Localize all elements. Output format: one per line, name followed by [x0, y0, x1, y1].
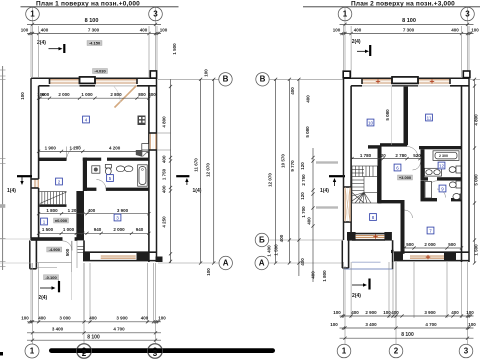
svg-text:500: 500	[448, 242, 456, 247]
svg-text:400: 400	[162, 185, 167, 193]
svg-text:1 800: 1 800	[46, 208, 58, 213]
svg-text:-4.150: -4.150	[89, 41, 101, 46]
svg-text:5 080: 5 080	[305, 126, 310, 138]
svg-text:В: В	[260, 75, 266, 84]
svg-text:500: 500	[406, 242, 414, 247]
svg-text:1 780: 1 780	[360, 153, 372, 158]
svg-text:100: 100	[333, 28, 341, 33]
svg-text:400: 400	[38, 316, 46, 321]
svg-text:7 300: 7 300	[403, 28, 415, 33]
svg-text:100: 100	[206, 268, 211, 276]
svg-text:1 700: 1 700	[301, 206, 306, 218]
svg-text:11 670: 11 670	[194, 158, 199, 172]
svg-text:400: 400	[162, 155, 167, 163]
svg-text:1 500: 1 500	[474, 244, 479, 256]
svg-text:100: 100	[466, 310, 474, 315]
svg-text:+3.000: +3.000	[399, 175, 412, 180]
svg-text:-4.900: -4.900	[49, 247, 61, 252]
svg-text:1(4): 1(4)	[7, 188, 16, 194]
svg-text:1 750: 1 750	[162, 168, 167, 180]
svg-text:1 500: 1 500	[172, 43, 177, 55]
svg-text:1: 1	[343, 9, 348, 18]
svg-text:8 100: 8 100	[402, 18, 416, 24]
svg-text:1 400: 1 400	[267, 245, 272, 257]
svg-text:400: 400	[451, 28, 459, 33]
svg-text:400: 400	[306, 95, 311, 103]
svg-text:500: 500	[65, 248, 70, 256]
svg-text:400: 400	[391, 310, 399, 315]
svg-text:400: 400	[88, 208, 96, 213]
svg-text:100: 100	[333, 310, 341, 315]
svg-text:-0.100: -0.100	[45, 275, 57, 280]
svg-text:4 700: 4 700	[113, 327, 125, 332]
svg-text:5 000: 5 000	[474, 174, 479, 186]
svg-text:4 250: 4 250	[162, 216, 167, 228]
svg-text:4 800: 4 800	[474, 114, 479, 126]
svg-text:400: 400	[279, 234, 284, 242]
svg-text:4 700: 4 700	[425, 322, 437, 327]
svg-text:±0.000: ±0.000	[55, 218, 68, 223]
svg-text:2: 2	[82, 349, 87, 358]
svg-text:400: 400	[307, 217, 312, 225]
svg-text:В: В	[223, 75, 229, 84]
svg-text:520: 520	[413, 153, 421, 158]
svg-text:400: 400	[451, 310, 459, 315]
svg-text:План 1 поверху на позн.+0,000: План 1 поверху на позн.+0,000	[36, 0, 140, 7]
svg-text:4 200: 4 200	[109, 145, 121, 150]
svg-text:3 900: 3 900	[117, 208, 129, 213]
svg-text:2(4): 2(4)	[352, 39, 361, 45]
svg-text:1(4): 1(4)	[320, 188, 329, 194]
svg-text:100: 100	[204, 69, 209, 77]
svg-text:100: 100	[468, 322, 476, 327]
svg-text:1 200: 1 200	[68, 208, 80, 213]
svg-text:2(4): 2(4)	[352, 293, 361, 299]
svg-text:1 000: 1 000	[63, 227, 75, 232]
svg-text:3 900: 3 900	[116, 316, 128, 321]
svg-text:1 500: 1 500	[274, 244, 279, 256]
svg-text:2: 2	[394, 346, 399, 355]
svg-text:800: 800	[138, 92, 146, 97]
svg-text:100: 100	[471, 28, 479, 33]
svg-text:1 800: 1 800	[322, 270, 327, 282]
svg-text:1: 1	[30, 346, 35, 355]
svg-text:1: 1	[342, 346, 347, 355]
svg-text:Б: Б	[259, 235, 265, 244]
svg-text:2 000: 2 000	[424, 242, 436, 247]
svg-text:400: 400	[351, 310, 359, 315]
svg-text:120: 120	[300, 192, 305, 200]
svg-text:2 900: 2 900	[365, 310, 377, 315]
svg-text:3 400: 3 400	[52, 327, 64, 332]
svg-text:10: 10	[368, 121, 374, 126]
svg-text:3 900: 3 900	[424, 310, 436, 315]
svg-text:600: 600	[42, 92, 50, 97]
svg-text:400: 400	[41, 28, 49, 33]
svg-text:4 800: 4 800	[162, 116, 167, 128]
svg-text:400: 400	[89, 316, 97, 321]
svg-text:100: 100	[21, 28, 29, 33]
svg-text:500: 500	[76, 227, 84, 232]
svg-text:3 400: 3 400	[365, 322, 377, 327]
svg-text:2(4): 2(4)	[38, 295, 47, 301]
svg-text:100: 100	[158, 316, 166, 321]
svg-text:2 300: 2 300	[439, 154, 448, 158]
svg-text:2 800: 2 800	[110, 92, 122, 97]
svg-text:11: 11	[427, 116, 432, 121]
svg-text:А: А	[259, 258, 265, 267]
svg-text:940: 940	[136, 227, 144, 232]
svg-text:1 000: 1 000	[81, 92, 93, 97]
svg-text:3: 3	[153, 349, 158, 358]
svg-text:2 750: 2 750	[301, 174, 306, 186]
svg-text:3: 3	[465, 9, 470, 18]
svg-text:10 570: 10 570	[280, 154, 285, 168]
svg-text:120: 120	[378, 153, 386, 158]
svg-text:400: 400	[140, 28, 148, 33]
svg-text:12 070: 12 070	[206, 163, 211, 177]
svg-text:12 070: 12 070	[268, 173, 273, 187]
svg-text:100: 100	[160, 28, 168, 33]
svg-text:План 2 поверху на позн.+3,000: План 2 поверху на позн.+3,000	[351, 0, 455, 7]
svg-text:400: 400	[300, 258, 305, 266]
svg-text:400: 400	[141, 316, 149, 321]
svg-text:100: 100	[21, 316, 29, 321]
svg-text:400: 400	[354, 28, 362, 33]
svg-text:-4.030: -4.030	[94, 69, 106, 74]
svg-text:3: 3	[464, 346, 469, 355]
svg-text:100: 100	[330, 322, 338, 327]
svg-text:120: 120	[300, 162, 305, 170]
svg-text:940: 940	[94, 227, 102, 232]
svg-text:2 000: 2 000	[113, 227, 125, 232]
svg-text:1 900: 1 900	[45, 145, 57, 150]
svg-text:100: 100	[20, 92, 25, 100]
svg-text:1 500: 1 500	[42, 227, 54, 232]
svg-text:8 100: 8 100	[87, 335, 100, 341]
svg-text:8 100: 8 100	[85, 18, 99, 24]
svg-text:8 100: 8 100	[401, 332, 414, 338]
svg-text:2 780: 2 780	[395, 153, 407, 158]
svg-text:400: 400	[311, 271, 316, 279]
svg-text:2 000: 2 000	[58, 92, 70, 97]
svg-text:400: 400	[290, 87, 295, 95]
svg-text:1: 1	[30, 9, 35, 18]
svg-text:9 770: 9 770	[290, 160, 295, 172]
svg-text:7 300: 7 300	[88, 28, 100, 33]
svg-text:400: 400	[148, 92, 156, 97]
svg-text:5 080: 5 080	[385, 109, 390, 121]
svg-text:12: 12	[439, 164, 445, 169]
svg-text:1 200: 1 200	[69, 145, 81, 150]
svg-text:3 000: 3 000	[59, 316, 71, 321]
svg-text:100: 100	[383, 310, 391, 315]
svg-text:3: 3	[153, 9, 158, 18]
svg-text:А: А	[223, 258, 229, 267]
